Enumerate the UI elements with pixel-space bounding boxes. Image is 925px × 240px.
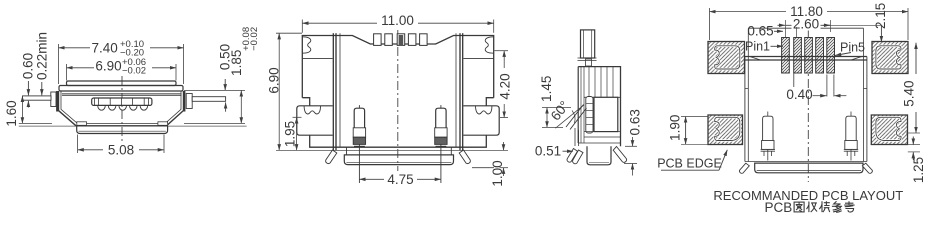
tab outline TR xyxy=(876,46,901,69)
post right dark tip xyxy=(435,137,447,144)
tab1L bottom line xyxy=(302,58,332,60)
svg-text:0.65: 0.65 xyxy=(747,24,773,39)
svg-text:0.22min: 0.22min xyxy=(35,32,50,80)
glyph jin xyxy=(807,202,818,213)
inner wall right xyxy=(455,33,457,147)
post left view4 xyxy=(761,112,775,161)
inner wall dark pair right xyxy=(459,33,461,150)
svg-text:0.51: 0.51 xyxy=(535,144,561,159)
front foot xyxy=(567,149,577,163)
left leg view3 xyxy=(573,150,583,164)
contact strip xyxy=(586,97,593,134)
svg-text:1.95: 1.95 xyxy=(282,121,297,147)
svg-text:1.00: 1.00 xyxy=(490,160,505,186)
svg-text:1.25: 1.25 xyxy=(911,157,925,183)
post left dark tip xyxy=(353,137,365,144)
body outline view4 xyxy=(748,27,863,29)
flange connectors xyxy=(347,147,452,155)
pad pin2 xyxy=(794,38,802,74)
left pin xyxy=(23,96,52,100)
pad corner TR xyxy=(872,42,908,74)
svg-text:11.00: 11.00 xyxy=(381,13,414,28)
glyph can xyxy=(832,201,842,212)
top cap plate xyxy=(67,81,177,86)
joint block xyxy=(578,58,597,61)
dim 5.08 xyxy=(78,135,164,154)
pad pin3 xyxy=(805,38,813,74)
post right xyxy=(436,108,446,128)
svg-text:1.90: 1.90 xyxy=(667,115,682,141)
tab outline BL xyxy=(715,117,740,140)
flange bar view4 xyxy=(755,163,863,173)
body view3 xyxy=(578,67,620,147)
tab1L S profile xyxy=(302,37,311,53)
centerline view4 xyxy=(807,28,809,182)
svg-text:1.60: 1.60 xyxy=(4,100,19,126)
post left centerline xyxy=(358,105,360,183)
glyph kao xyxy=(844,201,854,212)
top column xyxy=(581,30,595,58)
svg-text:0.60: 0.60 xyxy=(20,53,35,79)
svg-text:6.90: 6.90 xyxy=(95,59,121,74)
foot left view4 xyxy=(739,163,749,173)
shell interior top lines xyxy=(62,94,182,96)
teeth xyxy=(374,34,382,46)
svg-text:7.40: 7.40 xyxy=(91,41,117,56)
inner wall left xyxy=(339,33,341,147)
tongue xyxy=(92,98,152,105)
lower lines xyxy=(578,132,620,143)
tongue segment ticks xyxy=(94,98,148,105)
glyph gong xyxy=(819,201,830,212)
pad corner TL xyxy=(708,42,745,74)
svg-text:−0.02: −0.02 xyxy=(249,27,260,51)
pad pin5 xyxy=(827,38,835,74)
dim 6.90 +0.06/-0.02 xyxy=(67,64,177,81)
flange bar view2 xyxy=(344,155,453,165)
foot notch left xyxy=(77,122,87,126)
svg-text:0.40: 0.40 xyxy=(786,87,812,102)
bent contact leg xyxy=(566,105,587,130)
60 deg arc xyxy=(572,111,575,124)
post right centerline xyxy=(440,105,442,183)
svg-text:PCB: PCB xyxy=(765,200,793,215)
svg-text:PCB EDGE: PCB EDGE xyxy=(657,157,722,171)
pcb line view1 xyxy=(19,125,247,127)
svg-text:5.40: 5.40 xyxy=(901,80,916,106)
tab1R bottom line xyxy=(464,58,494,60)
left tab holder xyxy=(51,92,56,107)
tab2L notch xyxy=(304,106,320,114)
side step jogs xyxy=(745,88,867,90)
tab outline BR xyxy=(876,117,901,140)
svg-text:0.63: 0.63 xyxy=(627,109,642,135)
svg-text:−0.02: −0.02 xyxy=(122,66,146,77)
post left xyxy=(354,108,364,128)
glyph tu xyxy=(794,202,804,212)
svg-text:Pin1: Pin1 xyxy=(745,40,770,54)
shoulder diagonals view4 xyxy=(750,57,862,60)
bottom edge view4 xyxy=(745,161,867,163)
centerline view1 xyxy=(121,76,123,146)
svg-text:1.45: 1.45 xyxy=(539,76,554,102)
dim 1.85 +0.08/-0.02 xyxy=(229,27,260,76)
shell right edge dark xyxy=(183,91,185,112)
shell outer xyxy=(59,91,184,126)
lip bar xyxy=(59,86,183,92)
tongue contact scallops xyxy=(98,105,148,110)
foot notch right xyxy=(158,122,168,126)
right tab holder xyxy=(186,94,192,109)
pad pin1 xyxy=(782,38,790,74)
bottom flange xyxy=(77,126,168,134)
foot right view4 xyxy=(862,163,872,173)
pad corner BR xyxy=(871,115,907,145)
pad corner BL xyxy=(708,115,743,145)
shell inner xyxy=(61,91,181,123)
post right view4 xyxy=(844,112,858,161)
center foot view3 xyxy=(587,146,611,165)
right leg view3 xyxy=(613,147,626,163)
shell left edge dark xyxy=(56,91,58,112)
60 deg reference line xyxy=(556,105,585,128)
foot left view2 xyxy=(326,150,337,164)
svg-text:4.20: 4.20 xyxy=(497,73,512,99)
dim 2.60 xyxy=(778,20,882,37)
tooth center dark xyxy=(397,34,405,46)
body outline view2 xyxy=(302,36,493,98)
right pin xyxy=(192,97,225,102)
tab outline TL xyxy=(715,46,740,69)
dim 7.40 +0.10/-0.20 xyxy=(59,44,184,84)
svg-text:1.85: 1.85 xyxy=(229,50,244,76)
svg-text:5.08: 5.08 xyxy=(108,143,134,158)
centerline view2 xyxy=(397,30,399,171)
window xyxy=(594,97,618,131)
svg-text:RECOMMANDED PCB LAYOUT: RECOMMANDED PCB LAYOUT xyxy=(713,188,903,203)
svg-text:Pin5: Pin5 xyxy=(840,41,865,55)
pad pin4 xyxy=(816,38,824,74)
tab2L block xyxy=(297,106,333,135)
dim 4.75 xyxy=(359,178,441,180)
shell lines across xyxy=(745,56,867,58)
dim 11.00 xyxy=(302,20,493,33)
tab2R block xyxy=(463,106,499,135)
top stripes xyxy=(589,67,613,97)
foot right view2 xyxy=(459,150,470,164)
tab1R S profile xyxy=(485,37,494,53)
dim 11.80 xyxy=(710,8,909,40)
flange inner line xyxy=(79,130,166,132)
pad2 edge extension xyxy=(793,74,795,88)
svg-text:4.75: 4.75 xyxy=(387,172,413,187)
pcb line view2 xyxy=(276,149,508,151)
inner wall dark pair left xyxy=(332,33,334,150)
tab2R notch xyxy=(476,106,492,114)
